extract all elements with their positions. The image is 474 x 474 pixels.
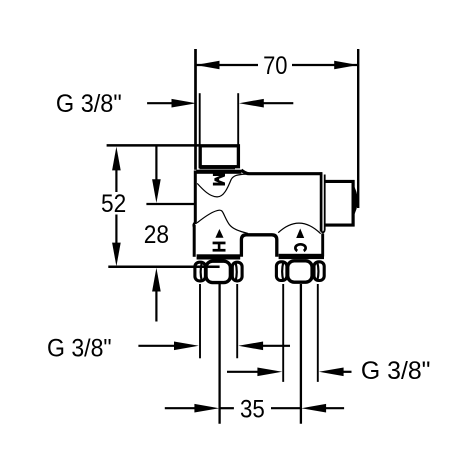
right union nut: middle lobe bbox=[288, 261, 312, 282]
dimension 35: inner line left of text bbox=[220, 407, 234, 409]
dimension 70: dimension line right segment bbox=[292, 64, 358, 66]
valve body: collar line bbox=[324, 175, 326, 231]
dimension G 3/8 lower-left: left tail line bbox=[138, 345, 176, 347]
dimension G 3/8 lower-left: right arrowhead pointing left bbox=[238, 342, 263, 351]
svg-text:52: 52 bbox=[101, 191, 126, 218]
body profile neck curve above H bbox=[197, 210, 248, 233]
left union nut: left face arc bbox=[201, 263, 202, 282]
inlet pipe M: left wall bbox=[199, 93, 201, 145]
dimension 28: bottom arrowhead pointing up bbox=[152, 268, 161, 292]
right tailpipe: right thread line bbox=[317, 284, 319, 382]
left union nut: right face arc bbox=[236, 263, 237, 282]
dimension 70: right extension line bbox=[357, 49, 359, 208]
band above right nut bbox=[279, 254, 324, 259]
dimension 35: inner line right of text bbox=[271, 407, 301, 409]
left union nut: right lobe bbox=[232, 262, 242, 281]
dimension 28: bottom tail line bbox=[155, 290, 157, 322]
outlet cylinder: end face crescent bbox=[353, 183, 358, 218]
right union nut: right lobe bbox=[314, 262, 324, 281]
outlet cylinder: top edge bbox=[325, 180, 355, 183]
valve body: collar bottom hook bbox=[321, 231, 325, 233]
valve body: top edge bbox=[241, 170, 322, 174]
left tailpipe: left thread line bbox=[199, 284, 201, 358]
dimension G 3/8 lower-right: right tail line bbox=[342, 371, 352, 373]
label H (rotated) bbox=[213, 242, 226, 252]
flange band under box bbox=[196, 170, 241, 174]
flow arrow C (triangle) bbox=[296, 229, 304, 239]
dimension G 3/8 lower-right: left tail line bbox=[227, 371, 260, 373]
body profile curve around M boss bbox=[197, 174, 246, 197]
dimension 52: down arrowhead bbox=[112, 243, 121, 267]
dimension 35: right arrowhead pointing left bbox=[301, 404, 326, 413]
dimension G 3/8 top: right tail line bbox=[262, 102, 293, 104]
svg-text:G 3/8": G 3/8" bbox=[47, 335, 112, 362]
thin line under backnut box bbox=[200, 168, 236, 170]
valve body: left edge upper bbox=[194, 171, 197, 225]
flow arrow H (triangle) bbox=[215, 229, 223, 238]
left union nut: left lobe bbox=[195, 262, 206, 281]
dimension G 3/8 top: left arrowhead pointing right bbox=[172, 99, 197, 108]
dimension 70: right arrowhead bbox=[334, 61, 358, 70]
reference tick for 28 dim bbox=[146, 203, 194, 205]
svg-text:G 3/8": G 3/8" bbox=[56, 91, 122, 118]
valve body: right edge bbox=[320, 172, 323, 231]
dimension 35: right tail line bbox=[324, 407, 344, 409]
C port right wall bbox=[321, 234, 324, 257]
web between H and C ports: H port right wall bbox=[241, 235, 276, 257]
outlet cylinder: right end face bbox=[352, 180, 355, 227]
label M (rotated) bbox=[213, 173, 225, 185]
reference line at nut level (52/28 dim datum) bbox=[108, 265, 219, 268]
svg-text:G 3/8": G 3/8" bbox=[361, 358, 431, 385]
dimension 35: left tail line bbox=[165, 407, 197, 409]
outlet cylinder: bottom edge bbox=[325, 224, 355, 227]
svg-text:35: 35 bbox=[240, 396, 265, 423]
dimension G 3/8 lower-right: left arrowhead pointing right bbox=[257, 368, 282, 377]
band above left nut bbox=[197, 254, 241, 259]
dimension G 3/8 lower-right: right arrowhead pointing left bbox=[319, 368, 344, 377]
dimension 70: dimension line left segment bbox=[196, 64, 258, 66]
right tailpipe: left thread line bbox=[282, 284, 284, 382]
svg-text:28: 28 bbox=[144, 222, 169, 249]
valve body: left edge lower (H port left wall) bbox=[193, 225, 196, 257]
reference line at top of body (52 dim datum) bbox=[107, 144, 199, 147]
dimension 70: left extension line bbox=[194, 49, 197, 170]
left union nut: middle lobe bbox=[206, 261, 230, 282]
left tailpipe: axis line bbox=[218, 284, 220, 424]
dimension 28: top tail line bbox=[155, 147, 157, 183]
left tailpipe: right thread line bbox=[236, 284, 238, 358]
dimension 52: up arrowhead bbox=[112, 147, 121, 171]
right union nut: left face arc bbox=[282, 262, 283, 281]
dimension G 3/8 top: right arrowhead pointing left bbox=[239, 99, 264, 108]
dimension G 3/8 lower-left: left arrowhead pointing right bbox=[174, 342, 199, 351]
dimension 35: left arrowhead pointing right bbox=[194, 404, 219, 413]
backnut box on pipe M bbox=[200, 146, 238, 167]
inlet pipe M: right wall bbox=[237, 93, 239, 145]
dimension G 3/8 lower-left: right tail line bbox=[261, 345, 290, 347]
body profile dome arc above C bbox=[278, 223, 321, 234]
dimension 52: lower line segment bbox=[115, 215, 117, 246]
dimension 28: top arrowhead pointing down bbox=[152, 179, 161, 203]
dimension 52: upper line segment bbox=[115, 168, 117, 192]
right tailpipe: axis line bbox=[300, 284, 302, 424]
dimension G 3/8 top: left tail line bbox=[147, 102, 173, 104]
svg-text:70: 70 bbox=[263, 53, 287, 80]
dimension 70: left arrowhead bbox=[196, 61, 220, 70]
right union nut: right face arc bbox=[317, 262, 318, 281]
valve body: left edge step bump bbox=[194, 223, 196, 228]
label C (rotated) bbox=[295, 244, 305, 251]
right union nut: left lobe bbox=[276, 262, 287, 281]
